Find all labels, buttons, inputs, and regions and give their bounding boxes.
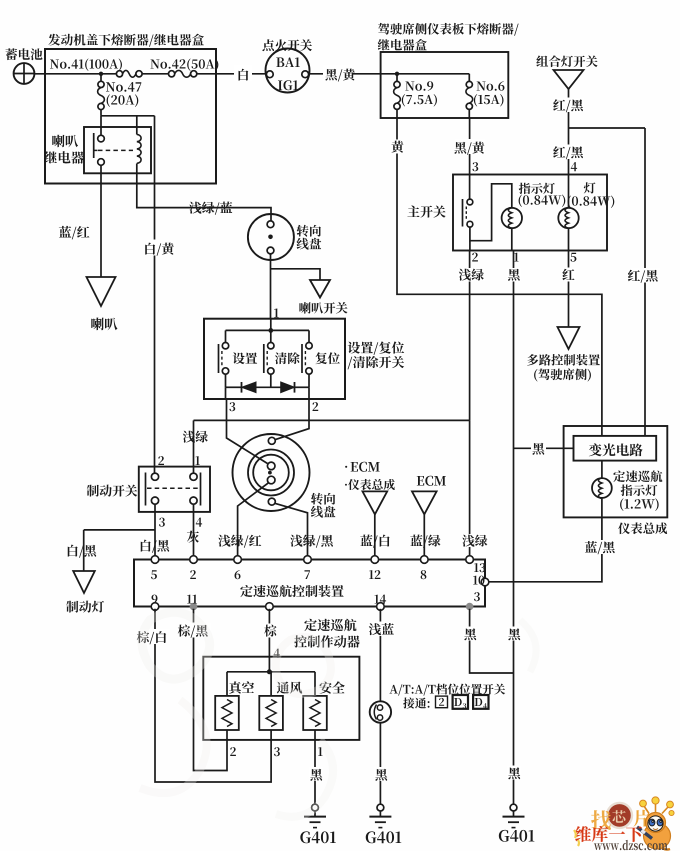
relay switch bar — [93, 133, 95, 158]
wire relay coil top — [136, 116, 138, 135]
unit top pin 12 — [371, 556, 379, 564]
label 组合灯开关 — [536, 55, 597, 67]
pin 3 label unit — [474, 592, 480, 601]
pin 1 label actuator — [318, 747, 322, 756]
label 喇叭开关 — [299, 302, 347, 314]
brake light triangle 制动灯 — [73, 571, 95, 593]
branch wire to horn switch — [271, 269, 321, 280]
label 黑 right bottom — [507, 766, 521, 780]
unit top pin 8 — [421, 556, 429, 564]
steering coil upper terminal — [267, 221, 274, 228]
wire brake pin3 to unit pin 5 白/黑 — [154, 504, 156, 556]
pin 3 label actuator — [274, 747, 280, 756]
fuse No.42 50A — [169, 71, 175, 77]
unit bottom pin 9 — [151, 603, 159, 611]
label 转向线盘 upper — [297, 225, 321, 237]
label 设置/复位/清除开关 — [348, 341, 404, 354]
combination light switch triangle 组合灯开关 — [554, 70, 584, 89]
label 蓝/白 — [360, 535, 389, 548]
label 黑 pin3 — [463, 627, 477, 641]
label 喇叭 — [91, 318, 117, 331]
label ECM 2 — [417, 476, 446, 486]
unit bottom pin 14 — [377, 603, 385, 611]
wire coil bottom terminal to pin 7 浅绿/黑 — [275, 503, 308, 555]
brake switch contact 1 — [190, 473, 197, 480]
label 浅绿 below main switch — [458, 268, 485, 282]
label 变光电路 — [589, 443, 643, 456]
label 棕/黑 — [180, 623, 211, 638]
label 黑/黄 — [323, 65, 352, 81]
label 白/黑 pin5 — [141, 540, 169, 553]
label 黑 below main switch — [507, 268, 521, 282]
wire set/resume pin3 to steering coil center — [227, 399, 268, 464]
label No.47 (20A) — [106, 82, 141, 92]
vent solenoid 通风 — [259, 696, 283, 730]
unit top pin 6 — [234, 556, 242, 564]
pin 1 label brake — [195, 456, 199, 465]
AT gear position switch — [370, 701, 391, 722]
label 安全 — [319, 681, 344, 693]
switch common bus wire — [226, 329, 310, 331]
label 浅绿/蓝 — [189, 202, 232, 215]
label 浅绿/黑 — [290, 535, 333, 548]
wire between fuses — [142, 73, 168, 75]
brake switch contact 3 — [151, 497, 158, 504]
label 白/黑 brake light — [68, 545, 96, 558]
actuator bus wire — [227, 671, 315, 673]
label 仪表总成 — [618, 522, 667, 534]
dimming circuit box 变光电路 — [574, 436, 657, 461]
watermark sparkle — [574, 830, 579, 846]
label (1.2W) — [620, 498, 659, 511]
wire to brake light — [83, 530, 85, 571]
label 定速巡航控制装置 — [240, 585, 343, 597]
node common bus junction — [268, 328, 273, 333]
main switch feed wire 浅绿 brake branch — [194, 419, 470, 421]
unit right pin 10 — [481, 578, 489, 586]
unit bottom pin 3 gray — [466, 603, 474, 611]
pin 2 label brake — [158, 456, 164, 465]
pin 2 label — [190, 570, 196, 579]
wire relay coil bottom to steering coil 浅绿/蓝 — [137, 164, 271, 221]
lamp 灯 0.84W — [558, 208, 578, 228]
label 浅绿 brake feed — [182, 430, 209, 444]
wire 浅绿 main pin2 down to unit pin 13 — [469, 251, 471, 421]
wire 白/黄 long drop to brake switch pin 2 — [154, 116, 156, 473]
label (驾驶席侧) — [534, 369, 591, 382]
label No.9 (7.5A) — [405, 81, 433, 90]
ground G401 right — [510, 804, 517, 811]
steering coil lower top terminal — [268, 437, 275, 444]
wire ECM2 to pin 8 — [423, 514, 425, 555]
wire unit pin3 黑 to ground rail — [470, 609, 514, 673]
label 红/黑 upper — [554, 98, 584, 113]
wire pin 2 exit resume switch — [308, 387, 310, 399]
label 接通: — [403, 697, 429, 708]
wire pin 3 exit set switch — [225, 387, 227, 399]
main switch contact top — [467, 199, 473, 205]
wire brake pin4 to unit pin 2 灰 — [193, 504, 195, 556]
relay coil winding — [137, 135, 141, 164]
unit bottom pin brown — [266, 603, 274, 611]
label 设置 — [233, 352, 257, 364]
pin 1 label set/resume switch — [274, 308, 279, 317]
diode bus wire — [226, 386, 242, 388]
label 棕 — [263, 624, 277, 638]
watermark 芯 char — [612, 810, 625, 823]
horn device triangle 喇叭 — [87, 277, 116, 306]
pin 10 label — [473, 576, 484, 585]
wire pin11 棕/黑 to vacuum solenoid — [194, 609, 228, 771]
label 红/黑 second — [554, 145, 584, 160]
wire steering coil to horn switch node — [270, 254, 272, 319]
steering coil lower inner circle — [253, 455, 289, 491]
label 控制作动器 — [294, 635, 360, 647]
wire comb light to main switch pin 4 红/黑 — [568, 89, 570, 175]
pin 9 label — [152, 595, 158, 604]
vacuum solenoid 真空 — [215, 696, 239, 730]
label No.6 (15A) — [477, 81, 505, 90]
steering coil lower bottom terminal — [268, 498, 275, 505]
label 主开关 — [407, 205, 445, 217]
wire coil mid-lower terminal to pin 6 浅绿/红 — [238, 483, 269, 556]
wire relay switch to horn 蓝/红 — [100, 165, 102, 277]
label 复位 — [315, 352, 339, 364]
relay switch contact top — [98, 135, 105, 142]
ignition switch circle — [266, 49, 310, 93]
label 浅绿 above pin13 — [462, 534, 489, 547]
wire 浅绿 down to brake switch pin 1 — [193, 420, 195, 473]
switch 设置 drop — [225, 330, 227, 342]
brake switch contact 2 — [151, 473, 158, 480]
indicator lamp 指示灯 0.84W — [502, 208, 522, 228]
wire 黑 main pin1 down — [513, 251, 515, 674]
wire 黄 from No.9 — [397, 118, 602, 436]
label 红/黑 right rail — [630, 268, 660, 283]
pin 4 label main switch — [571, 162, 577, 171]
fuse No.6 15A — [468, 74, 470, 82]
label 黑 dimming — [531, 442, 546, 456]
label ·仪表总成 — [345, 479, 395, 490]
brake switch dashed link — [147, 487, 199, 489]
unit top pin 5 — [151, 556, 159, 564]
steering coil lower center dot — [268, 471, 272, 475]
label 指示灯 lamp — [621, 484, 658, 496]
label (0.84W) lamp — [568, 195, 615, 208]
right rail 红/黑 wire — [644, 128, 646, 436]
label ·ECM — [345, 466, 347, 468]
wire 黑 rail to ground — [513, 673, 515, 804]
label 定速巡航 lamp — [613, 470, 662, 482]
label 灯 — [584, 182, 596, 193]
horn switch triangle 喇叭开关 — [310, 280, 330, 298]
gear box D4 — [473, 695, 488, 709]
pin 5 label main switch — [570, 253, 576, 262]
pin 4 label actuator — [274, 649, 280, 658]
label 喇叭继电器 — [52, 135, 78, 147]
ignition terminal IG1 side — [302, 71, 309, 78]
pin 8 label — [421, 570, 427, 579]
label 蓝/黑 — [585, 540, 618, 554]
wire No.47 to relay coil and 白/黄 branch — [101, 115, 155, 117]
main switch internal wire to indicator lamp — [470, 184, 512, 241]
label 黑/黄 main switch — [455, 139, 485, 154]
unit top pin 7 — [304, 556, 312, 564]
pin 6 label — [235, 570, 241, 579]
label 发动机盖下熔断器/继电器盒 — [48, 34, 204, 47]
watermark www.dzsc.com — [594, 840, 668, 850]
unit bottom pin 11 gray — [190, 603, 198, 611]
safety solenoid 安全 — [303, 696, 327, 730]
switch 复位 bar — [301, 344, 303, 373]
brake switch left bar — [145, 473, 147, 506]
pin 2 label actuator — [230, 747, 236, 756]
ground G401 middle — [377, 804, 384, 811]
horn relay box — [84, 127, 151, 173]
pin 13 label — [474, 563, 485, 572]
wire RESUME bottom to diode bus — [308, 374, 310, 387]
label 点火开关 — [262, 39, 312, 51]
watermark mascot — [637, 797, 674, 850]
label 白 white wire — [234, 65, 252, 81]
watermark 片 char — [634, 810, 651, 827]
pin 11 label — [187, 595, 197, 604]
label 黄 — [390, 140, 405, 154]
wire ignition to dash fuse box 黑/黄 — [309, 73, 381, 75]
watermark ghost strokes — [140, 612, 536, 816]
main switch box 主开关 — [453, 175, 607, 251]
wire 棕 pin to actuator pin 4 — [268, 609, 270, 672]
cruise control unit box 定速巡航控制装置 — [134, 560, 485, 607]
pin 5 label — [151, 570, 157, 579]
wire ECM1 to pin 12 — [374, 514, 376, 555]
instrument cluster box 仪表总成 — [564, 426, 668, 517]
unit top pin 13 — [466, 556, 474, 564]
wire pin9 棕/白 to vent solenoid — [155, 609, 271, 782]
label 制动开关 — [87, 485, 138, 497]
label 制动灯 — [66, 601, 104, 613]
wire AT switch to ground 黑 — [379, 723, 381, 805]
cruise indicator lamp 1.2W — [601, 461, 603, 479]
watermark red text 维库一下 — [575, 826, 642, 842]
wire 黑 branch to dimming circuit — [514, 447, 574, 449]
pin 4 label brake — [196, 518, 202, 527]
wire fuse box to ignition switch — [197, 73, 266, 75]
node branch to right rail — [569, 127, 646, 129]
wire lamp2 bottom to pin 5 — [568, 228, 570, 250]
unit top pin 2 — [190, 556, 198, 564]
wire to horn relay switch contact — [100, 116, 102, 136]
switch 设置 bar — [218, 344, 220, 373]
label 红 below main switch — [561, 268, 576, 282]
switch 复位 contacts — [306, 343, 312, 349]
wire lamp1 bottom to pin 1 — [511, 228, 513, 250]
pin 3 label main switch — [472, 162, 478, 171]
wire set/resume pin2 to steering coil top terminal — [275, 399, 309, 440]
label 蓝/红 — [59, 226, 90, 239]
label 黑 AT — [374, 767, 388, 781]
wire pin4 to lamp — [568, 175, 570, 208]
switch 清除 contacts — [268, 343, 274, 349]
brake switch box 制动开关 — [139, 467, 210, 512]
switch 清除 drop — [270, 330, 272, 342]
steering coil center dot — [268, 235, 273, 240]
label 多路控制装置 — [527, 354, 600, 366]
node No.9 tap — [395, 72, 399, 76]
label 蓄电池 — [6, 48, 43, 60]
wire 黑/黄 from No.6 to main switch pin 3 — [469, 118, 471, 175]
wire CANCEL bottom to diode bus — [270, 374, 272, 387]
node actuator bus junction — [267, 669, 272, 674]
label 黑 safety — [309, 767, 323, 781]
ECM triangle 2 — [412, 491, 437, 514]
pin 3 label brake — [159, 518, 165, 527]
watermark 找 char — [591, 810, 611, 830]
relay switch contact bottom — [98, 159, 105, 166]
label 浅蓝 — [368, 622, 395, 637]
brake switch right bar — [200, 473, 202, 506]
label 蓝/绿 — [410, 535, 440, 548]
ECM instrument triangle — [363, 491, 388, 514]
label A/T:A/T档位位置开关 — [389, 684, 505, 696]
actuator box 定速巡航控制作动器 — [203, 657, 359, 740]
steering coil lower terminal — [267, 247, 274, 254]
relay dashed actuation line — [98, 149, 133, 151]
battery B+ — [14, 63, 35, 84]
label BA1 — [276, 57, 300, 67]
label 黑 right rail — [507, 627, 521, 641]
fuse No.41 100A — [116, 71, 122, 77]
steering coil lower mid-lower terminal — [267, 476, 275, 484]
main switch contact bottom — [467, 221, 473, 227]
dash fuse/relay box driver side — [381, 52, 509, 118]
wire safety solenoid to ground — [314, 730, 316, 804]
safety solenoid drop — [314, 672, 316, 696]
pin 14 label — [375, 595, 387, 604]
label 白/黄 — [146, 240, 176, 256]
label 棕/白 — [139, 629, 170, 644]
wire 红 main pin5 to multiplex unit — [568, 251, 570, 328]
label 指示灯 — [519, 183, 555, 194]
vent solenoid drop — [270, 672, 272, 696]
ignition terminal BA1 side — [266, 71, 273, 78]
node brake light branch — [84, 529, 155, 531]
set/resume/cancel switch box — [204, 319, 345, 399]
pin 7 label — [304, 570, 309, 579]
wire contact bottom to pin 2 — [469, 241, 471, 251]
label 通风 — [277, 681, 302, 693]
pin 3 label — [229, 402, 235, 411]
diode D1 pointing left — [242, 382, 257, 393]
brake switch contact 4 — [190, 497, 197, 504]
switch 复位 drop — [308, 330, 310, 342]
vacuum solenoid drop — [226, 672, 228, 696]
label 继电器盒 — [378, 39, 427, 51]
wire inside dash box — [381, 73, 470, 75]
battery positive feed wire — [35, 73, 117, 75]
switch 设置 contacts — [222, 343, 228, 349]
steering coil lower assembly outer circle — [233, 434, 310, 511]
main switch wire pin3 to contact — [469, 175, 471, 200]
switch 清除 bar — [263, 344, 265, 373]
ground G401 left — [312, 804, 319, 811]
label 转向线盘 lower — [311, 493, 335, 505]
wire lamp to pin 10 蓝/黑 — [489, 498, 602, 582]
pin 2 label — [312, 402, 318, 411]
label No.41(100A) — [50, 58, 122, 71]
diode D2 pointing right — [281, 382, 295, 393]
label 真空 — [229, 681, 254, 693]
label IG1 — [278, 80, 298, 90]
label No.42(50A) — [150, 58, 218, 71]
steering coil upper circle 转向线盘 — [248, 214, 294, 260]
label (0.84W) indicator — [519, 194, 566, 207]
wire 浅蓝 pin14 to AT switch — [379, 609, 381, 702]
main switch bar — [462, 199, 464, 227]
steering coil lower middle circle — [248, 450, 294, 496]
label 浅绿/红 — [218, 535, 261, 548]
label 定速巡航 actuator — [304, 619, 356, 631]
multiplex control triangle — [558, 327, 580, 349]
label 驾驶席侧仪表板下熔断器/ — [378, 23, 519, 36]
gear box D3 — [453, 695, 468, 709]
pin 12 label — [369, 570, 380, 579]
node junction No.47 tap — [99, 72, 103, 76]
label 清除 — [275, 352, 300, 364]
fuse No.9 7.5A — [396, 74, 398, 82]
wire SET bottom to diode bus — [225, 374, 227, 387]
pin 2 label main switch — [472, 253, 478, 262]
engine compartment fuse/relay box — [45, 49, 216, 184]
fuse No.47 20A vertical — [100, 74, 102, 82]
label 灰 — [187, 531, 199, 543]
pin 1 label main switch — [514, 253, 518, 262]
steering coil lower mid-upper terminal — [267, 462, 275, 470]
gear box 2 — [436, 696, 448, 708]
